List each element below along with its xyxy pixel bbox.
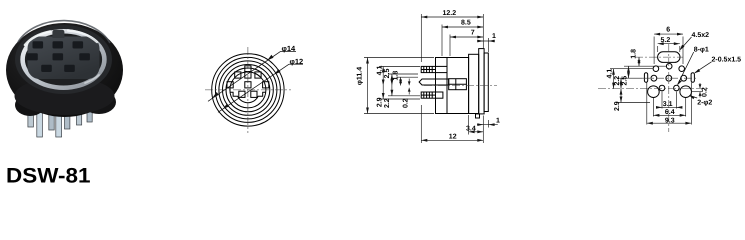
svg-text:2.9: 2.9 <box>614 101 621 111</box>
svg-text:9.3: 9.3 <box>665 117 675 124</box>
svg-text:5.2: 5.2 <box>661 37 671 44</box>
centerlines front <box>205 47 291 133</box>
rear dim 0.2 right <box>692 83 704 98</box>
dim 2.5 <box>628 66 630 78</box>
svg-text:φ14: φ14 <box>282 44 297 53</box>
svg-text:DSW-81: DSW-81 <box>6 165 91 187</box>
pin squares front <box>227 72 269 97</box>
dim 4.1 <box>382 67 384 86</box>
dim 1 top <box>477 40 495 42</box>
dim 1.8 <box>400 77 402 85</box>
dim 6 <box>654 33 683 35</box>
svg-text:2.9: 2.9 <box>376 97 383 107</box>
svg-text:6: 6 <box>666 27 670 34</box>
stadium slot 4.5x2 <box>644 52 694 98</box>
ext lines <box>420 14 422 62</box>
photo: body top edge light <box>18 21 110 43</box>
svg-text:2-φ2: 2-φ2 <box>697 100 712 107</box>
svg-text:6.4: 6.4 <box>665 109 675 116</box>
svg-text:1: 1 <box>496 118 500 125</box>
mount holes 2-phi2 <box>648 86 660 98</box>
dim 2.5 <box>391 74 393 86</box>
keyway notch <box>245 66 251 72</box>
contact middle <box>419 79 449 85</box>
svg-text:3.4: 3.4 <box>466 126 476 133</box>
svg-text:φ12: φ12 <box>290 57 304 66</box>
centerlines rear <box>598 44 708 132</box>
svg-text:0.2: 0.2 <box>702 87 709 97</box>
svg-text:0.2: 0.2 <box>402 98 409 108</box>
dim 8.5 <box>442 26 483 28</box>
rear dims top <box>654 33 683 64</box>
svg-text:8-φ1: 8-φ1 <box>694 47 709 54</box>
svg-text:4.5x2: 4.5x2 <box>692 32 710 39</box>
svg-text:4.1: 4.1 <box>607 69 614 79</box>
photo: connector body <box>6 23 123 117</box>
photo: socket face <box>28 37 100 80</box>
dim 1.8 <box>638 57 640 66</box>
ring inner <box>223 65 274 116</box>
side dims left <box>364 58 434 114</box>
leader 4.5x2 <box>680 37 692 50</box>
dim 4.1 <box>613 69 615 89</box>
svg-text:2-0.5x1.5: 2-0.5x1.5 <box>712 56 742 63</box>
dim 2.2 <box>620 78 622 88</box>
pin row2 <box>651 75 657 81</box>
centerline side <box>424 85 497 87</box>
circle phi12 <box>215 57 280 122</box>
svg-text:2.2: 2.2 <box>384 98 391 108</box>
svg-text:1.8: 1.8 <box>393 71 400 81</box>
dim 3.4 <box>469 131 484 133</box>
photo: ring highlight <box>25 31 99 84</box>
cavity circle <box>226 68 270 112</box>
leader phi14 <box>208 51 296 101</box>
dim 12 <box>421 139 483 141</box>
svg-text:1.8: 1.8 <box>631 49 638 59</box>
svg-text:3.1: 3.1 <box>663 101 673 108</box>
dim 2.9 <box>620 89 622 103</box>
leader 2-0.5x1.5 <box>694 62 711 73</box>
side slots 0.5x1.5 <box>644 73 647 82</box>
clip <box>449 79 467 90</box>
photo: 8 holes <box>27 41 90 72</box>
svg-text:4.1: 4.1 <box>376 66 383 76</box>
photo: keyway tab <box>52 30 64 38</box>
contact bottom <box>421 92 443 98</box>
dim phi11.4 <box>367 58 369 114</box>
dim 5.2 <box>658 43 680 45</box>
dim 0.2 <box>408 79 410 86</box>
svg-text:7: 7 <box>471 29 475 36</box>
svg-text:1: 1 <box>492 33 496 40</box>
svg-text:2.5: 2.5 <box>384 69 391 79</box>
rear dims left <box>610 57 666 102</box>
ring outer <box>219 61 277 119</box>
shield circle <box>230 72 266 108</box>
svg-text:2.2: 2.2 <box>614 76 621 86</box>
svg-text:12: 12 <box>449 134 457 141</box>
circle phi14 <box>212 54 284 126</box>
side dims top <box>421 14 495 62</box>
svg-text:8.5: 8.5 <box>461 19 471 26</box>
insert outline <box>230 92 266 103</box>
leader 2-phi2 <box>689 95 697 99</box>
pin row1 <box>653 66 659 72</box>
dim 3.1 <box>656 106 682 108</box>
dim 12.2 <box>421 16 483 18</box>
dim 2.2 <box>391 86 393 96</box>
rear dims bottom <box>647 83 692 125</box>
photo: pins <box>28 106 92 137</box>
pin row3 <box>659 85 665 91</box>
dim 2.9 <box>382 86 384 100</box>
leader phi12 <box>218 64 303 112</box>
dim 9.3 <box>647 122 692 124</box>
contact top <box>421 66 447 72</box>
dim 7 <box>450 36 483 38</box>
svg-text:12.2: 12.2 <box>443 10 457 17</box>
photo: front rim + metal ring <box>15 25 112 94</box>
side dims bottom <box>421 105 498 143</box>
svg-text:φ11.4: φ11.4 <box>357 67 364 85</box>
leader 8-phi1 <box>677 52 694 85</box>
svg-text:2.5: 2.5 <box>621 76 628 86</box>
dim 6.4 <box>653 114 685 116</box>
body outline <box>419 49 488 118</box>
dim 1 bottom <box>477 124 498 126</box>
